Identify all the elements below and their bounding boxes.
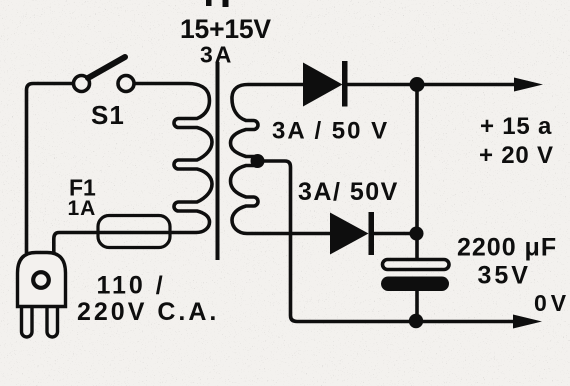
diode D1 wire [345, 83, 516, 87]
plug prong left [22, 300, 33, 337]
switch S1 lever [88, 57, 125, 78]
switch S1 contact circle left [74, 76, 90, 92]
node dot on 0V rail [409, 314, 423, 328]
0V output arrow [513, 315, 542, 329]
wire cap to 0V rail [415, 291, 419, 322]
diode D2 triangle [330, 213, 369, 255]
plug body [18, 253, 66, 307]
node dot at D2 output [410, 227, 424, 241]
wire switch to transformer primary, primary winding, wire through fuse to plug [54, 84, 212, 256]
wire top-left from plug up to switch [27, 84, 73, 254]
svg-text:3A / 50 V: 3A / 50 V [272, 118, 389, 145]
diode D1 triangle [303, 63, 343, 107]
capacitor C1 top plate [383, 260, 450, 270]
svg-text:+ 15 a: + 15 a [480, 113, 552, 140]
center tap node dot [251, 154, 265, 168]
output arrow +15..20V [514, 78, 543, 92]
svg-text:110 /: 110 / [97, 272, 166, 300]
plug hole [33, 272, 49, 288]
transformer secondary winding [231, 85, 333, 234]
capacitor C1 bottom plate [381, 277, 449, 292]
switch S1 contact circle right [118, 76, 134, 92]
svg-text:+ 20 V: + 20 V [479, 142, 554, 169]
svg-text:35V: 35V [478, 262, 531, 290]
svg-text:220V C.A.: 220V C.A. [77, 298, 219, 326]
center tap wire down to 0V rail [258, 161, 517, 322]
plug prong right [47, 300, 58, 337]
fuse F1 body [98, 216, 170, 248]
transformer core [216, 62, 220, 260]
svg-text:S1: S1 [91, 100, 125, 130]
svg-text:2200 μF: 2200 μF [457, 234, 557, 262]
svg-text:1A: 1A [68, 197, 97, 220]
diode D1 cathode bar [342, 61, 348, 107]
node dot top rail [410, 77, 425, 92]
svg-text:0V: 0V [534, 290, 570, 316]
svg-text:3A/ 50V: 3A/ 50V [298, 178, 399, 206]
diode D2 cathode bar [369, 212, 375, 255]
svg-text:15+15V: 15+15V [180, 14, 271, 44]
label T1 (cut off at top) [206, 0, 229, 7]
diode D2 wire [370, 232, 417, 236]
main vertical rail [415, 85, 419, 259]
